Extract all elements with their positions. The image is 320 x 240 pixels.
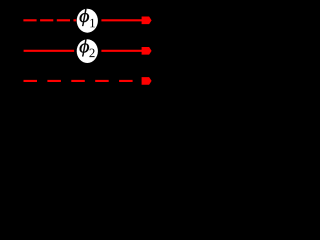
label phi_1 : subscript 1 (90, 19, 95, 27)
label phi_1 : phi glyph (80, 9, 89, 26)
wire: mode 1 solid right segment (101, 19, 146, 21)
arrowhead mode 2 (142, 47, 152, 55)
phase shifter node circle 2 (77, 39, 98, 63)
wire: mode 3 dashed line (24, 80, 147, 82)
wire: mode 2 solid right segment (101, 50, 146, 52)
phase shifter node circle 1 (77, 9, 98, 33)
wire: mode 2 solid left segment (24, 50, 75, 52)
arrowhead mode 1 (142, 17, 152, 25)
label phi_2 : subscript 2 (89, 49, 94, 57)
label phi_2 : phi glyph (80, 39, 89, 56)
wire: mode 1 dashed left segment (23, 19, 76, 21)
arrowhead mode 3 (142, 77, 152, 85)
